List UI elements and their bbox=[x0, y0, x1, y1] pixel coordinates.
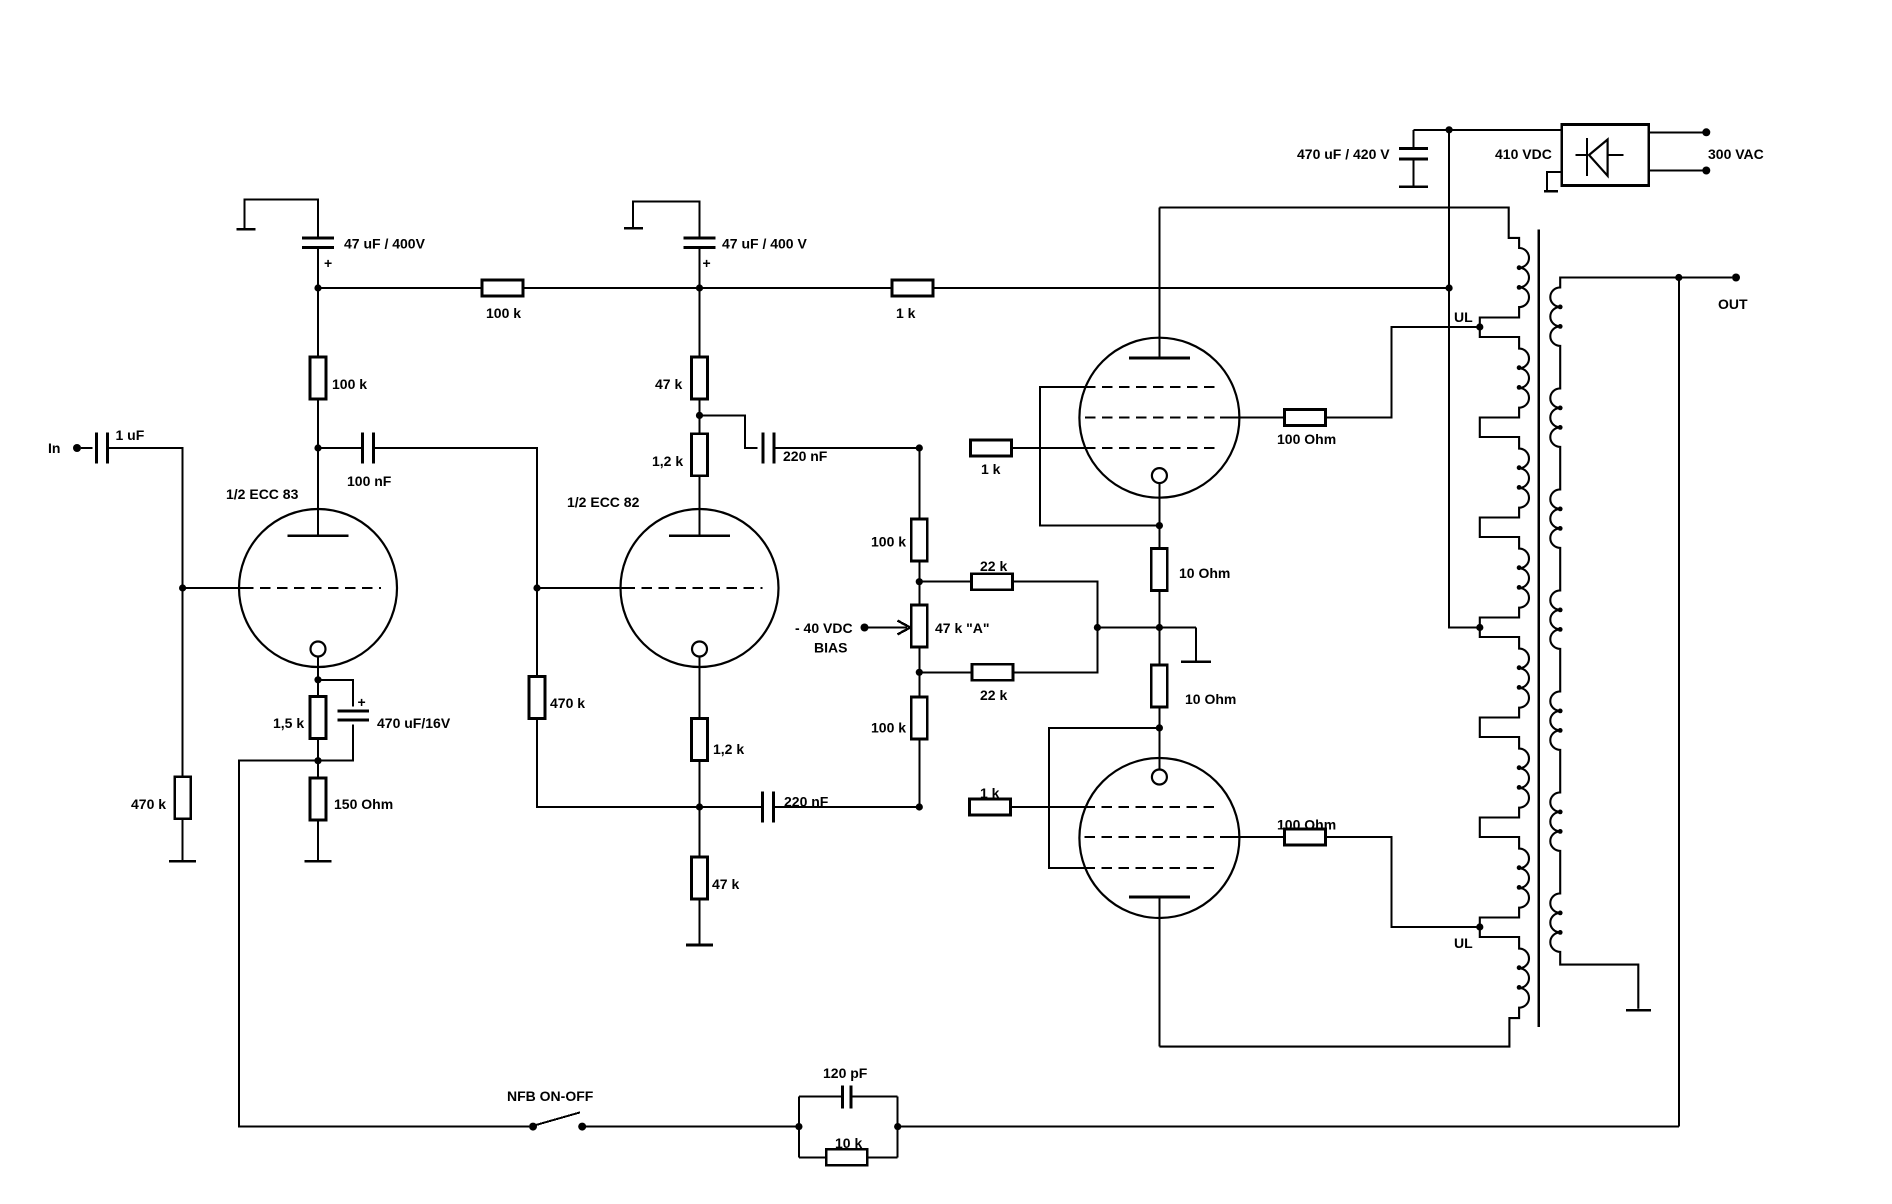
wire: R19 to lower UL tap bbox=[1326, 837, 1480, 927]
node: ECC83 anode node bbox=[314, 444, 321, 451]
wire: V4 anode to transformer bottom bbox=[1158, 897, 1160, 1047]
resistor R15 22 k (lower) bbox=[972, 664, 1013, 703]
svg-text:UL: UL bbox=[1454, 309, 1473, 325]
node: pot top node bbox=[916, 578, 923, 585]
wire: V3 anode to transformer top bbox=[1158, 208, 1160, 359]
capacitor C8 470 uF / 420 V bbox=[1297, 130, 1428, 162]
wire: bus node to R2 bbox=[318, 287, 482, 289]
capacitor C1 1 uF bbox=[96, 427, 144, 464]
resistor R6 470 k (ECC82 grid leak) bbox=[529, 677, 585, 719]
wire: mix node to 10 Ohm midpoint bbox=[1097, 627, 1159, 629]
wire: C2 to bus node bbox=[317, 248, 319, 289]
resistor R17 1 k (lower grid stopper) bbox=[970, 785, 1011, 815]
wire: R6 to lower coupling row bbox=[537, 718, 700, 808]
svg-text:+: + bbox=[703, 255, 711, 271]
ground: ECC82 tail bbox=[686, 898, 713, 945]
wire: V3 screen to R18 bbox=[1220, 417, 1285, 419]
svg-text:1,2 k: 1,2 k bbox=[713, 741, 744, 757]
ground: rectifier bbox=[1544, 172, 1562, 191]
svg-text:47 uF / 400 V: 47 uF / 400 V bbox=[722, 236, 807, 252]
wire: V4 suppressor to cathode bbox=[1049, 728, 1159, 868]
wire: R16 to V3 grid bbox=[1012, 447, 1086, 449]
wire: V3 suppressor to cathode bbox=[1040, 387, 1159, 526]
label 300 VAC bbox=[1708, 146, 1764, 162]
wire: R14 to mix node bbox=[1013, 582, 1098, 628]
svg-text:1/2 ECC 83: 1/2 ECC 83 bbox=[226, 486, 299, 502]
svg-text:470 k: 470 k bbox=[131, 796, 166, 812]
ground: C5 top bbox=[624, 202, 700, 238]
wire: rectifier to 300 VAC bottom bbox=[1649, 170, 1703, 172]
wire: anode node to C4 bbox=[318, 447, 363, 449]
bias input terminal -40 VDC bbox=[795, 620, 869, 656]
node: B+ node bbox=[1446, 126, 1453, 133]
svg-text:1,2 k: 1,2 k bbox=[652, 453, 683, 469]
svg-text:100 Ohm: 100 Ohm bbox=[1277, 817, 1336, 833]
wire: C5 to bus node bbox=[699, 248, 701, 289]
node: pot bottom node bbox=[916, 669, 923, 676]
resistor R4 1,5 k (cathode) bbox=[273, 680, 326, 761]
svg-text:300 VAC: 300 VAC bbox=[1708, 146, 1764, 162]
ground: C2 top bbox=[237, 200, 319, 238]
svg-text:1,5 k: 1,5 k bbox=[273, 715, 304, 731]
pentode V4 (lower output) bbox=[1079, 728, 1239, 918]
capacitor C4 100 nF bbox=[347, 433, 392, 490]
resistor R2 100 k (decoupling) bbox=[482, 280, 523, 321]
wire: grid node to R1 bbox=[182, 588, 184, 777]
diode D1 (in rectifier) bbox=[1576, 138, 1624, 176]
node: ECC82 cathode / coupling node bbox=[696, 803, 703, 810]
capacitor C2 47 uF / 400V bbox=[302, 236, 426, 272]
svg-text:1 k: 1 k bbox=[981, 461, 1001, 477]
svg-text:100 k: 100 k bbox=[332, 376, 367, 392]
svg-text:470 uF/16V: 470 uF/16V bbox=[377, 715, 451, 731]
wire: R10 to lower row node bbox=[699, 760, 701, 808]
wire: C4 to ECC82 grid node bbox=[373, 448, 537, 588]
svg-text:47 k "A": 47 k "A" bbox=[935, 620, 990, 636]
wire: R13 to node B bbox=[918, 739, 920, 807]
capacitor C6 220 nF (upper coupling) bbox=[763, 433, 828, 465]
node: ECC82 supply node bbox=[696, 284, 703, 291]
wire: C6 to bias node A bbox=[774, 447, 919, 449]
svg-text:100 Ohm: 100 Ohm bbox=[1277, 431, 1336, 447]
wire: R18 to upper UL tap bbox=[1326, 327, 1480, 418]
svg-text:100 k: 100 k bbox=[486, 305, 521, 321]
wire: OUT junction to terminal bbox=[1679, 277, 1732, 279]
triode V1 1/2 ECC 83 bbox=[226, 448, 397, 680]
resistor R3 100 k (ECC83 anode load) bbox=[310, 288, 367, 399]
svg-text:100 k: 100 k bbox=[871, 534, 906, 550]
wire: R2 to ECC82 supply node bbox=[523, 287, 700, 289]
svg-text:+: + bbox=[324, 255, 332, 271]
resistor R18 100 Ohm (upper screen) bbox=[1277, 410, 1336, 448]
svg-text:150 Ohm: 150 Ohm bbox=[334, 796, 393, 812]
resistor R14 22 k (upper) bbox=[972, 558, 1013, 590]
ground: secondary bbox=[1626, 1009, 1651, 1012]
node: ECC83 supply node bbox=[314, 284, 321, 291]
node: OUT junction bbox=[1675, 274, 1682, 281]
svg-text:120 pF: 120 pF bbox=[823, 1065, 868, 1081]
wire: rectifier to 300 VAC top bbox=[1649, 131, 1703, 133]
svg-text:47 uF / 400V: 47 uF / 400V bbox=[344, 236, 426, 252]
wire: C8 to B+ node bbox=[1414, 129, 1450, 131]
label In bbox=[48, 440, 60, 456]
svg-text:410 VDC: 410 VDC bbox=[1495, 146, 1552, 162]
svg-text:OUT: OUT bbox=[1718, 296, 1748, 312]
wire: R17 to V4 grid bbox=[1011, 806, 1085, 808]
svg-text:470 uF / 420 V: 470 uF / 420 V bbox=[1297, 146, 1390, 162]
svg-text:100 k: 100 k bbox=[871, 720, 906, 736]
wire: C7 left lead bbox=[700, 806, 763, 808]
wire: R12 to pot top node bbox=[918, 562, 920, 582]
RC network frame bbox=[799, 1097, 898, 1158]
wire: R21 to V4 cathode junction bbox=[1158, 706, 1160, 728]
resistor R13 100 k (lower bias) bbox=[871, 672, 927, 739]
wire: pot top to R14 bbox=[919, 581, 971, 583]
transformer T1 secondary winding bbox=[1550, 278, 1679, 1009]
node: ECC83 cathode bottom junction bbox=[314, 757, 321, 764]
svg-text:NFB ON-OFF: NFB ON-OFF bbox=[507, 1088, 594, 1104]
wire: ECC82 grid node to R6 bbox=[536, 588, 538, 678]
wire: supply node to R8 bbox=[700, 287, 893, 289]
resistor R5 150 Ohm bbox=[310, 761, 393, 820]
input terminal bbox=[73, 444, 81, 452]
terminal: 300 VAC top bbox=[1702, 128, 1710, 136]
rectifier box bbox=[1495, 125, 1649, 186]
svg-text:In: In bbox=[48, 440, 60, 456]
potentiometer P1 47 k "A" bbox=[911, 582, 989, 673]
svg-text:1 k: 1 k bbox=[980, 785, 1000, 801]
resistor R7 47 k (ECC82 anode load) bbox=[655, 288, 708, 399]
wire: R7 to ECC82 anode node bbox=[699, 398, 701, 415]
node: bias node B bbox=[916, 803, 923, 810]
ground: C8 bbox=[1399, 160, 1428, 186]
node: 10 Ohm midpoint bbox=[1156, 624, 1163, 631]
resistor R10 1,2 k (ECC82 cathode) bbox=[692, 719, 745, 761]
wire: R20 to midpoint bbox=[1158, 590, 1160, 628]
wire: R15 to mix node bbox=[1013, 628, 1097, 673]
capacitor C3 470 uF/16V (cathode bypass) bbox=[318, 680, 451, 761]
transformer T1 core bbox=[1538, 230, 1540, 1027]
svg-text:- 40 VDC: - 40 VDC bbox=[795, 620, 853, 636]
resistor R11 47 k (tail) bbox=[692, 807, 740, 899]
node: B+ bus junction bbox=[1446, 284, 1453, 291]
node: ECC83 grid junction bbox=[179, 584, 186, 591]
wire: node A to R12 bbox=[918, 448, 920, 518]
resistor R21 10 Ohm (lower) bbox=[1151, 628, 1236, 708]
transformer T1 primary winding bbox=[1159, 208, 1529, 1047]
node: V4 cathode junction bbox=[1156, 724, 1163, 731]
resistor R23 10 k bbox=[826, 1135, 867, 1165]
wire: R3 to anode node bbox=[317, 398, 319, 448]
wire: B+ line bbox=[1449, 130, 1480, 628]
wiper arrow: bias input to P1 bbox=[868, 621, 910, 635]
node: RC right bbox=[894, 1123, 901, 1130]
resistor R20 10 Ohm (upper) bbox=[1151, 526, 1230, 591]
wire: OUT line down bbox=[1678, 278, 1680, 1127]
svg-text:100 nF: 100 nF bbox=[347, 473, 392, 489]
wire: C7 to bias node B bbox=[774, 806, 920, 808]
terminal: 300 VAC bottom bbox=[1702, 167, 1710, 175]
wire: ECC82 grid node to V2 grid bbox=[537, 587, 625, 589]
svg-text:47 k: 47 k bbox=[712, 876, 739, 892]
wire: anode node to C6 bbox=[700, 415, 758, 448]
wire: B+ node to rectifier bbox=[1449, 129, 1563, 131]
node: V3 cathode junction bbox=[1156, 522, 1163, 529]
svg-text:10 Ohm: 10 Ohm bbox=[1185, 691, 1236, 707]
node: RC left bbox=[795, 1123, 802, 1130]
wire: NFB from ECC83 cathode bbox=[239, 761, 529, 1127]
triode V2 1/2 ECC 82 bbox=[567, 476, 779, 720]
node: lower UL tap bbox=[1454, 923, 1483, 951]
wire: grid node to V1 grid bbox=[183, 587, 243, 589]
wire: pot bottom to R15 bbox=[919, 671, 972, 673]
node: upper UL tap bbox=[1454, 309, 1483, 331]
capacitor C5 47 uF / 400 V bbox=[684, 236, 808, 272]
ground: ECC83 cathode bbox=[305, 819, 332, 861]
resistor R12 100 k (upper bias) bbox=[871, 519, 927, 561]
ground: input return bbox=[169, 818, 196, 861]
switch S1 NFB ON-OFF bbox=[507, 1088, 594, 1131]
wire: RC network to OUT line bbox=[898, 1126, 1679, 1128]
svg-text:10 Ohm: 10 Ohm bbox=[1179, 565, 1230, 581]
resistor R1 470 k bbox=[131, 777, 191, 819]
node: ECC83 cathode junction bbox=[314, 676, 321, 683]
wire: switch to RC network bbox=[586, 1126, 799, 1128]
node: 22k mix node bbox=[1094, 624, 1101, 631]
wire: C1 to ECC83 grid node bbox=[107, 448, 182, 588]
capacitor C9 120 pF bbox=[823, 1065, 868, 1109]
svg-text:1/2 ECC 82: 1/2 ECC 82 bbox=[567, 494, 640, 510]
svg-text:47 k: 47 k bbox=[655, 376, 682, 392]
svg-text:10 k: 10 k bbox=[835, 1135, 862, 1151]
svg-text:1 uF: 1 uF bbox=[116, 427, 145, 443]
resistor R9 1,2 k (build-out) bbox=[652, 415, 708, 475]
svg-text:22 k: 22 k bbox=[980, 558, 1007, 574]
wire: B+ bus run bbox=[933, 287, 1449, 289]
svg-text:+: + bbox=[358, 694, 366, 710]
ground: cathode return bbox=[1159, 628, 1211, 662]
svg-text:1 k: 1 k bbox=[896, 305, 916, 321]
node: ECC82 grid junction bbox=[533, 584, 540, 591]
node: primary centre tap (B+) bbox=[1476, 624, 1483, 631]
wire: V4 screen to R19 bbox=[1220, 836, 1285, 838]
pentode V3 (upper output) bbox=[1079, 338, 1239, 526]
node: bias node A bbox=[916, 444, 923, 451]
resistor R19 100 Ohm (lower screen) bbox=[1277, 817, 1336, 846]
wire: input terminal to C1 bbox=[81, 447, 92, 449]
svg-text:220 nF: 220 nF bbox=[783, 448, 828, 464]
resistor R22 1 k (bus dropper) bbox=[892, 280, 933, 321]
svg-text:UL: UL bbox=[1454, 935, 1473, 951]
svg-text:22 k: 22 k bbox=[980, 687, 1007, 703]
svg-text:470 k: 470 k bbox=[550, 695, 585, 711]
capacitor C7 220 nF (lower coupling) bbox=[763, 792, 829, 823]
svg-text:BIAS: BIAS bbox=[814, 640, 847, 656]
resistor R16 1 k (upper grid stopper) bbox=[971, 440, 1012, 477]
terminal OUT bbox=[1718, 274, 1748, 313]
node: ECC82 anode node bbox=[696, 412, 703, 419]
